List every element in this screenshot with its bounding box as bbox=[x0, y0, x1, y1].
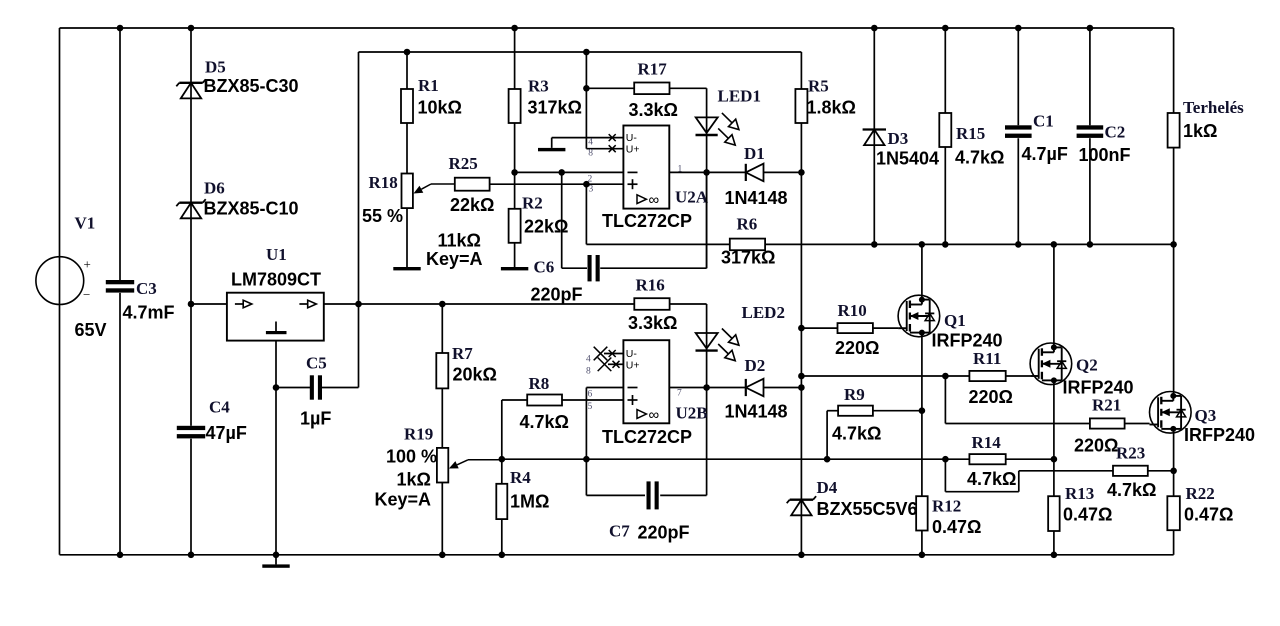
diode D2 bbox=[746, 379, 764, 397]
wire U2B pin4 stub bbox=[604, 353, 623, 355]
voltage regulator U1 LM7809CT bbox=[227, 293, 324, 341]
wire U2A pin1 out bbox=[669, 171, 746, 173]
wire R6 to drain rail bbox=[765, 243, 874, 245]
junction R7 top tap bbox=[439, 301, 446, 308]
svg-text:220pF: 220pF bbox=[531, 285, 583, 305]
svg-text:3: 3 bbox=[589, 185, 594, 195]
wire R16 right bbox=[670, 303, 707, 305]
svg-text:1.8kΩ: 1.8kΩ bbox=[807, 98, 856, 118]
wire R10 left bbox=[801, 327, 837, 329]
svg-text:Key=A: Key=A bbox=[426, 249, 483, 269]
wire Q1 drain bbox=[921, 244, 923, 299]
svg-text:LM7809CT: LM7809CT bbox=[231, 270, 321, 290]
svg-text:R25: R25 bbox=[449, 154, 478, 173]
wire R18 bottom bbox=[406, 208, 408, 267]
svg-text:Key=A: Key=A bbox=[375, 490, 432, 510]
svg-text:0.47Ω: 0.47Ω bbox=[1184, 505, 1233, 525]
svg-text:4: 4 bbox=[588, 137, 593, 147]
resistor R17 bbox=[634, 83, 669, 95]
svg-text:1N5404: 1N5404 bbox=[876, 149, 939, 169]
wire U2A pin4 ground stub bbox=[551, 138, 553, 148]
svg-text:D4: D4 bbox=[817, 478, 838, 497]
capacitor C3 bbox=[106, 280, 134, 293]
svg-text:6: 6 bbox=[588, 390, 593, 400]
resistor R2 bbox=[509, 209, 521, 243]
svg-text:220pF: 220pF bbox=[638, 523, 690, 543]
capacitor C6 bbox=[588, 255, 600, 281]
wire R13 bottom bbox=[1053, 531, 1055, 555]
LED1 diode bbox=[696, 113, 739, 145]
wire R9 left bbox=[827, 410, 838, 412]
wire right edge load to drain rail bbox=[1173, 148, 1175, 245]
svg-text:10kΩ: 10kΩ bbox=[418, 98, 462, 118]
R18 wiper arrow bbox=[414, 184, 455, 194]
wire U2B pin5 row bbox=[562, 399, 623, 401]
junction drain rail R15 bbox=[942, 241, 949, 248]
svg-text:5: 5 bbox=[588, 402, 593, 412]
wire Q3 drain bbox=[1173, 244, 1175, 396]
svg-text:U-: U- bbox=[626, 348, 638, 360]
svg-text:BZX85-C10: BZX85-C10 bbox=[204, 199, 299, 219]
capacitor C2 bbox=[1077, 125, 1104, 138]
transistor Q1 IRFP240 bbox=[898, 295, 940, 337]
svg-text:100 %: 100 % bbox=[386, 447, 437, 467]
junction R3 top rail bbox=[511, 25, 518, 32]
wire U2A pin4 bbox=[552, 137, 624, 139]
svg-text:U2A: U2A bbox=[675, 188, 709, 207]
potentiometer R18 bbox=[402, 174, 413, 209]
resistor R16 bbox=[634, 298, 669, 310]
junction R23 source junction bbox=[1170, 468, 1177, 475]
svg-text:IRFP240: IRFP240 bbox=[1184, 425, 1255, 445]
voltage source V1 bbox=[36, 257, 84, 305]
wire R17 left bbox=[586, 87, 634, 89]
U1 input arrow bbox=[235, 303, 243, 305]
svg-text:R18: R18 bbox=[369, 173, 398, 192]
svg-text:R11: R11 bbox=[973, 349, 1001, 368]
diode D1 bbox=[746, 164, 764, 182]
wire C5 riser bbox=[358, 304, 360, 388]
wire U1 ground stub bbox=[275, 555, 277, 565]
svg-text:0.47Ω: 0.47Ω bbox=[1063, 505, 1112, 525]
wire C7 right wire bbox=[660, 494, 706, 496]
wire box left edge bbox=[358, 52, 360, 304]
wire C1 bottom bbox=[1017, 138, 1019, 244]
resistor R12 bbox=[916, 496, 928, 530]
wire right edge top (to load) bbox=[1173, 28, 1175, 113]
ground below U1 bbox=[262, 564, 289, 567]
wire R23 jog up bbox=[1018, 471, 1020, 492]
svg-text:C3: C3 bbox=[136, 279, 157, 298]
wire C3 top bbox=[119, 28, 121, 280]
svg-text:220Ω: 220Ω bbox=[1074, 436, 1118, 456]
svg-text:Terhelés: Terhelés bbox=[1183, 98, 1244, 117]
wire R23 right bbox=[1148, 470, 1174, 472]
svg-text:4.7kΩ: 4.7kΩ bbox=[967, 469, 1016, 489]
LED2 diode bbox=[696, 329, 739, 361]
wire C6 column bbox=[561, 172, 563, 268]
svg-text:1: 1 bbox=[678, 165, 683, 175]
zener diode D5 bbox=[176, 79, 205, 98]
svg-text:C1: C1 bbox=[1033, 112, 1054, 131]
svg-text:3.3kΩ: 3.3kΩ bbox=[628, 313, 677, 333]
wire R17 right bbox=[670, 87, 707, 89]
svg-text:C6: C6 bbox=[534, 258, 555, 277]
wire R11 to Q2 gate bbox=[1006, 375, 1030, 377]
wire bottom rail 0V bbox=[60, 554, 1174, 556]
junction R14 left junction bbox=[942, 456, 949, 463]
junction pin2 C6 junction bbox=[558, 169, 565, 176]
svg-text:4.7kΩ: 4.7kΩ bbox=[520, 412, 569, 432]
svg-text:1MΩ: 1MΩ bbox=[510, 492, 549, 512]
svg-text:65V: 65V bbox=[75, 320, 107, 340]
resistor R6 bbox=[730, 239, 765, 251]
svg-text:D5: D5 bbox=[205, 58, 226, 77]
wire C5 left bbox=[276, 387, 310, 389]
svg-text:Q2: Q2 bbox=[1076, 356, 1098, 375]
op-amp U2A box bbox=[623, 126, 669, 209]
junction R13 bottom rail bbox=[1051, 552, 1058, 559]
svg-text:R17: R17 bbox=[638, 60, 668, 79]
wire C6 right wire bbox=[600, 267, 706, 269]
svg-text:R7: R7 bbox=[452, 344, 473, 363]
junction R12 bottom rail bbox=[919, 552, 926, 559]
wire R10 to Q1 gate bbox=[873, 327, 898, 329]
wire U2B pin8 stub bbox=[608, 363, 623, 365]
U1 output arrow bbox=[299, 303, 307, 305]
wire R17 corner to LED1 column bbox=[706, 88, 708, 268]
wire drain rail bbox=[874, 243, 1173, 245]
wire R3 to R2 bbox=[514, 123, 516, 209]
svg-text:1N4148: 1N4148 bbox=[725, 188, 788, 208]
svg-text:∞: ∞ bbox=[649, 192, 660, 209]
junction drain rail D3 bbox=[871, 241, 878, 248]
junction R19 bottom rail bbox=[439, 552, 446, 559]
resistor R7 bbox=[436, 353, 448, 388]
svg-text:4.7kΩ: 4.7kΩ bbox=[832, 424, 881, 444]
resistor R13 bbox=[1048, 496, 1060, 531]
junction pin2 R3R2 junction bbox=[511, 169, 518, 176]
svg-text:22kΩ: 22kΩ bbox=[450, 195, 494, 215]
load resistor Terhelés bbox=[1168, 113, 1180, 148]
junction R11 jog junction bbox=[942, 373, 949, 380]
U2A minus mark bbox=[628, 171, 638, 173]
svg-text:3.3kΩ: 3.3kΩ bbox=[629, 100, 678, 120]
wire U2B pin7 out bbox=[669, 387, 746, 389]
svg-text:8: 8 bbox=[586, 367, 591, 377]
junction U1 ground rail bbox=[273, 552, 280, 559]
wire R3 top bbox=[514, 28, 516, 89]
resistor R1 bbox=[401, 89, 413, 123]
junction R9 source junction bbox=[919, 407, 926, 414]
wire U1 input bbox=[191, 303, 227, 305]
wire R23 jog across bbox=[945, 491, 1018, 493]
svg-text:R22: R22 bbox=[1186, 484, 1215, 503]
wire D5-D6 column bbox=[190, 28, 192, 304]
svg-text:C2: C2 bbox=[1105, 123, 1126, 142]
wire jog to R6 bbox=[586, 243, 729, 245]
wire Q3 source bbox=[1173, 429, 1175, 496]
wire R19 bottom bbox=[441, 483, 443, 555]
zener diode D6 bbox=[176, 199, 205, 218]
wire R2 bottom bbox=[514, 243, 516, 267]
ground below R18 bbox=[393, 267, 420, 270]
svg-text:R8: R8 bbox=[529, 374, 550, 393]
svg-text:LED2: LED2 bbox=[742, 303, 785, 322]
junction gate R11 tap bbox=[798, 373, 805, 380]
ground below R2 bbox=[501, 267, 528, 270]
svg-text:IRFP240: IRFP240 bbox=[932, 331, 1003, 351]
wire C2 top bbox=[1089, 28, 1091, 125]
svg-text:R2: R2 bbox=[522, 194, 543, 213]
svg-text:R23: R23 bbox=[1116, 444, 1145, 463]
junction R9 jog junction bbox=[824, 456, 831, 463]
junction U1 input tap bbox=[188, 301, 195, 308]
wire C6 riser to output bbox=[706, 172, 708, 268]
resistor R14 bbox=[969, 454, 1005, 464]
wire pin3 jog down bbox=[585, 184, 587, 244]
junction drain rail Q1 drain bbox=[919, 241, 926, 248]
svg-text:1kΩ: 1kΩ bbox=[1183, 121, 1217, 141]
junction R14 source junction bbox=[1051, 456, 1058, 463]
wire R16 corner to LED2 column bbox=[706, 304, 708, 495]
junction drain rail C1 bbox=[1015, 241, 1022, 248]
svg-text:C7: C7 bbox=[609, 522, 630, 541]
svg-text:R16: R16 bbox=[636, 276, 665, 295]
svg-text:R1: R1 bbox=[418, 76, 439, 95]
svg-text:TLC272CP: TLC272CP bbox=[602, 427, 692, 447]
svg-text:Q1: Q1 bbox=[944, 311, 966, 330]
junction drain rail Q2 drain bbox=[1051, 241, 1058, 248]
U2B pin8 nc cross bbox=[598, 358, 612, 372]
svg-text:U-: U- bbox=[626, 132, 638, 144]
junction drain rail C2 bbox=[1087, 241, 1094, 248]
wire D2 to gate column bbox=[764, 387, 802, 389]
wire U1 ground column bbox=[275, 341, 277, 555]
junction R4 bottom rail bbox=[499, 552, 506, 559]
wire left edge (V1 column) bbox=[59, 28, 61, 555]
svg-text:U2B: U2B bbox=[676, 404, 708, 423]
svg-text:IRFP240: IRFP240 bbox=[1063, 378, 1134, 398]
wire pin6 column bbox=[585, 388, 587, 496]
svg-text:R14: R14 bbox=[972, 433, 1002, 452]
wire output row to R16 bbox=[442, 303, 634, 305]
capacitor C1 bbox=[1005, 125, 1032, 138]
wire D1 to gate column bbox=[764, 171, 802, 173]
wire R21 row bbox=[945, 423, 1090, 425]
svg-text:R4: R4 bbox=[510, 468, 531, 487]
wire top rail 65V bbox=[60, 27, 1174, 29]
svg-text:R3: R3 bbox=[528, 77, 549, 96]
svg-text:U+: U+ bbox=[626, 360, 640, 372]
wire feedback row left bbox=[502, 458, 587, 460]
svg-text:BZX55C5V6: BZX55C5V6 bbox=[817, 499, 918, 519]
svg-text:220Ω: 220Ω bbox=[835, 338, 879, 358]
U1 common pin symbol bbox=[275, 322, 277, 332]
U2A plus mark bbox=[628, 183, 638, 185]
capacitor C5 bbox=[310, 375, 322, 399]
wire R9 right bbox=[873, 410, 922, 412]
junction R15 top rail bbox=[942, 25, 949, 32]
svg-text:R13: R13 bbox=[1065, 484, 1094, 503]
wire Q1 source bbox=[921, 333, 923, 497]
svg-text:∞: ∞ bbox=[649, 407, 660, 424]
wire R21 to Q3 gate bbox=[1125, 423, 1150, 425]
svg-text:D2: D2 bbox=[745, 356, 766, 375]
junction C5 left junction bbox=[273, 384, 280, 391]
svg-text:8: 8 bbox=[588, 149, 593, 159]
svg-text:C5: C5 bbox=[306, 354, 327, 373]
resistor R22 bbox=[1167, 496, 1180, 530]
svg-text:R21: R21 bbox=[1092, 396, 1121, 415]
wire inner 9V rail bbox=[359, 51, 802, 53]
wire R21 jog down bbox=[944, 376, 946, 424]
wire Q2 drain bbox=[1053, 244, 1055, 347]
junction gate R10 tap bbox=[798, 325, 805, 332]
svg-text:100nF: 100nF bbox=[1079, 145, 1131, 165]
resistor R21 bbox=[1090, 418, 1125, 428]
junction pin6 col junction bbox=[583, 456, 590, 463]
wire R1 top bbox=[406, 52, 408, 89]
transistor Q3 IRFP240 bbox=[1150, 392, 1192, 434]
svg-text:R9: R9 bbox=[844, 385, 865, 404]
wire R5 bottom bbox=[800, 123, 802, 172]
wire R25 to +input bbox=[490, 183, 624, 185]
U2B minus mark bbox=[628, 387, 638, 389]
svg-text:4.7mF: 4.7mF bbox=[123, 303, 175, 323]
svg-text:220Ω: 220Ω bbox=[969, 387, 1013, 407]
U2B gain triangle bbox=[637, 410, 646, 419]
wire R7 top bbox=[441, 304, 443, 353]
wire R15 bottom bbox=[944, 147, 946, 244]
wire C7 left wire bbox=[586, 494, 645, 496]
wire feedback to R14 bbox=[945, 458, 969, 460]
wire D3 column bbox=[873, 28, 875, 244]
junction wiper junction bbox=[499, 456, 506, 463]
junction gate D2 tap bbox=[798, 384, 805, 391]
wire R1 to R18 bbox=[406, 123, 408, 174]
svg-text:+: + bbox=[84, 257, 91, 272]
junction box corner bbox=[355, 301, 362, 308]
capacitor C7 bbox=[647, 481, 659, 509]
svg-text:11kΩ: 11kΩ bbox=[438, 231, 481, 251]
svg-text:7: 7 bbox=[677, 389, 682, 399]
svg-text:R10: R10 bbox=[838, 301, 867, 320]
junction C4 bottom rail bbox=[188, 552, 195, 559]
resistor R11 bbox=[969, 371, 1005, 381]
svg-text:−: − bbox=[83, 287, 90, 302]
svg-text:20kΩ: 20kΩ bbox=[453, 365, 497, 385]
svg-text:U+: U+ bbox=[626, 144, 640, 156]
svg-text:U1: U1 bbox=[266, 245, 287, 264]
resistor R4 bbox=[496, 484, 507, 519]
resistor R15 bbox=[939, 113, 951, 147]
wire R23 jog down bbox=[944, 459, 946, 492]
junction C3 top rail bbox=[117, 25, 124, 32]
wire C2 bottom bbox=[1089, 138, 1091, 244]
wire feedback row mid bbox=[586, 458, 827, 460]
svg-text:C4: C4 bbox=[209, 398, 230, 417]
diode D3 (plain bar) bbox=[863, 130, 886, 146]
svg-text:4.7kΩ: 4.7kΩ bbox=[955, 148, 1004, 168]
wire R5 top bbox=[800, 52, 802, 89]
wire feedback row right bbox=[827, 458, 945, 460]
wire U2B pin6 row bbox=[586, 387, 623, 389]
op-amp U2B box bbox=[623, 340, 669, 423]
svg-text:R5: R5 bbox=[808, 77, 829, 96]
wire R9 jog bbox=[826, 411, 828, 460]
junction D4 bottom rail bbox=[798, 552, 805, 559]
svg-text:317kΩ: 317kΩ bbox=[528, 98, 582, 118]
resistor R23 bbox=[1113, 466, 1148, 476]
svg-text:LED1: LED1 bbox=[718, 87, 761, 106]
wire R12 bottom bbox=[921, 531, 923, 555]
svg-text:V1: V1 bbox=[75, 214, 96, 233]
wire U2A pin8 bbox=[586, 148, 623, 150]
zener diode D4 bbox=[787, 496, 816, 515]
junction R17 tap bbox=[583, 85, 590, 92]
wire R14 right bbox=[1006, 458, 1054, 460]
svg-text:BZX85-C30: BZX85-C30 bbox=[204, 76, 299, 96]
svg-text:47µF: 47µF bbox=[206, 423, 247, 443]
junction D3 top rail bbox=[871, 25, 878, 32]
wire R4 bottom bbox=[501, 519, 503, 555]
svg-text:Q3: Q3 bbox=[1195, 406, 1217, 425]
junction drain rail right corner bbox=[1170, 241, 1177, 248]
junction D5 top rail bbox=[188, 25, 195, 32]
junction R1 inner rail bbox=[404, 49, 411, 56]
svg-text:4.7kΩ: 4.7kΩ bbox=[1107, 480, 1156, 500]
wire R8 column down bbox=[501, 400, 503, 484]
wire pin8 column bbox=[585, 52, 587, 149]
wire output row to R7 bbox=[359, 303, 443, 305]
wire C1 top bbox=[1017, 28, 1019, 125]
svg-text:D6: D6 bbox=[204, 179, 225, 198]
svg-text:55 %: 55 % bbox=[362, 206, 403, 226]
junction C3 bottom rail bbox=[117, 552, 124, 559]
svg-text:TLC272CP: TLC272CP bbox=[602, 211, 692, 231]
wire R11 row to box bbox=[945, 375, 969, 377]
transistor Q2 IRFP240 bbox=[1030, 343, 1072, 385]
wire R22 bottom bbox=[1173, 530, 1175, 555]
junction U2B output node bbox=[703, 384, 710, 391]
wire R7 to R19 bbox=[441, 388, 443, 448]
svg-text:R19: R19 bbox=[404, 425, 433, 444]
U2A pin8 nc mark bbox=[609, 145, 616, 152]
wire R15 top bbox=[944, 28, 946, 113]
resistor R25 bbox=[455, 178, 490, 191]
ground at U2A pin4 bbox=[538, 148, 565, 151]
U2B plus mark bbox=[628, 399, 638, 401]
capacitor C4 bbox=[177, 426, 205, 439]
svg-text:4.7µF: 4.7µF bbox=[1022, 144, 1068, 164]
wire C3 bottom bbox=[119, 293, 121, 555]
svg-text:D1: D1 bbox=[744, 144, 765, 163]
resistor R10 bbox=[838, 323, 873, 333]
wire U1 tap to C4 bbox=[190, 304, 192, 426]
U2A pin4 nc mark bbox=[609, 134, 616, 141]
resistor R9 bbox=[838, 406, 873, 416]
svg-text:D3: D3 bbox=[888, 129, 909, 148]
wire C5 right bbox=[322, 387, 359, 389]
svg-text:R6: R6 bbox=[737, 215, 758, 234]
svg-text:0.47Ω: 0.47Ω bbox=[932, 517, 981, 537]
wire Q2 source bbox=[1053, 380, 1055, 496]
R19 wiper arrow bbox=[449, 460, 502, 469]
potentiometer R19 bbox=[437, 448, 448, 483]
resistor R3 bbox=[509, 89, 521, 123]
svg-text:1µF: 1µF bbox=[300, 409, 331, 429]
